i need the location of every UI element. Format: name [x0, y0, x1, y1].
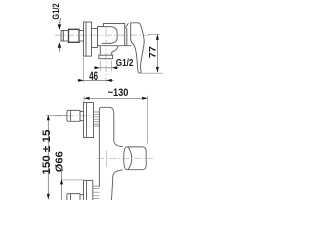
~130 extension line right: [147, 96, 149, 144]
46 dimension line: [78, 79, 114, 81]
flange inner line (top view): [85, 22, 87, 56]
body bottom-right rounding to outlet (top view): [112, 46, 118, 52]
leader line from G1/2 label: [59, 18, 62, 25]
nipple end cap (top view): [61, 31, 63, 42]
front view: upper connection centerline: [55, 115, 93, 117]
cartridge ring line 1 (top view): [126, 28, 128, 46]
77 arrow up: [156, 34, 159, 40]
body neck (top view): [92, 29, 98, 48]
upper nut inner line: [70, 110, 72, 121]
shower outlet tube (top view): [100, 46, 111, 56]
nipple tube (top view): [63, 31, 68, 42]
body vertical centerline tick (front view): [106, 151, 108, 168]
77 arrow down: [156, 67, 159, 73]
46 arrow left: [78, 79, 83, 82]
arrow down to nipple top: [58, 24, 61, 30]
svg-text:46: 46: [89, 69, 98, 83]
nipple neck (top view): [79, 31, 84, 42]
cartridge ring line 2 (top view): [125, 23, 128, 28]
top view: horizontal centerline: [55, 34, 150, 36]
upper eccentric nut (front view): [67, 110, 80, 121]
outlet G1/2 dimension line: [94, 67, 119, 69]
outlet dim arrow left: [95, 66, 100, 69]
outlet extension line right: [111, 61, 113, 72]
lower neck (front view): [80, 195, 84, 200]
mixer body (front view): [99, 107, 122, 147]
lower eccentric nut (front view): [67, 194, 80, 200]
handle cap right rounded face: [143, 147, 146, 170]
handle cap outer rim arc (front view): [124, 147, 127, 170]
150 arrow up: [47, 115, 50, 121]
vertical centerline of outlet (top view): [105, 28, 107, 83]
svg-text:150 ± 15: 150 ± 15: [41, 130, 53, 175]
body bottom edge (top view): [98, 45, 132, 47]
wall flange (top view): [84, 22, 92, 56]
150 upper extension line: [46, 114, 67, 116]
~130 arrow left: [84, 97, 90, 100]
upper thread hatch: [94, 114, 100, 124]
~130 dimension line: [84, 97, 148, 99]
46 extension line at wall face: [83, 57, 85, 83]
lower flange (front view): [84, 180, 93, 200]
150 dimension line: [47, 115, 49, 200]
d66 extension line at flange top: [61, 179, 84, 181]
lever blade (side profile): [131, 23, 145, 73]
valve body outline (top view): [98, 24, 125, 46]
svg-text:G1/2: G1/2: [51, 3, 61, 19]
svg-text:~130: ~130: [108, 87, 129, 99]
body under handle outline (front view): [111, 170, 122, 200]
arrow up to nipple bottom: [58, 42, 61, 48]
150 arrow down: [47, 194, 50, 200]
body left edge lower (front view): [98, 128, 100, 187]
~130 extension line left: [83, 96, 85, 102]
46 arrow right: [106, 79, 111, 82]
77 lower extension line at lever tip: [141, 72, 163, 74]
lower thread nipple top edge: [93, 185, 100, 187]
svg-text:G1/2: G1/2: [116, 58, 134, 69]
~130 arrow right: [142, 97, 148, 100]
lower flange inner line: [86, 180, 88, 200]
upper flange inner line: [86, 103, 88, 138]
svg-text:77: 77: [147, 46, 157, 58]
handle cap inner rim arc: [128, 147, 132, 169]
lower thread hatch: [93, 188, 100, 198]
upper flange (front view): [84, 103, 94, 138]
d66 dimension line: [61, 167, 63, 200]
upper thread nipple (front view): [94, 112, 100, 126]
upper neck (front view): [80, 112, 84, 121]
outlet collar (top view): [99, 55, 113, 59]
svg-text:Ø66: Ø66: [54, 151, 65, 173]
handle centerline (front view): [97, 157, 153, 159]
outlet dim arrow right: [112, 66, 117, 69]
d66 arrow up: [60, 179, 63, 185]
nipple nut (top view): [69, 29, 80, 42]
handle cap bottom edge: [127, 169, 143, 171]
77 dimension line: [156, 34, 158, 72]
cartridge cap D-shape (top view): [102, 27, 117, 44]
tail line below arrow: [58, 48, 60, 52]
77 upper extension line: [148, 33, 160, 35]
outlet extension line left: [99, 61, 101, 72]
handle cap top edge: [127, 146, 143, 148]
